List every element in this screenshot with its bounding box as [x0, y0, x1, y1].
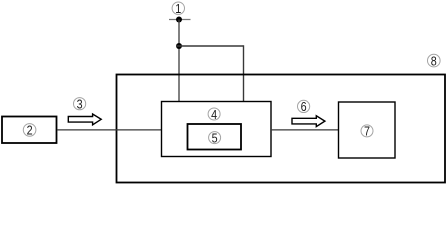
box 4	[162, 102, 272, 157]
svg-text:1: 1	[175, 1, 181, 16]
junction dot at terminal	[176, 17, 182, 23]
node 1 callout circle	[172, 1, 184, 16]
callout 7	[361, 124, 373, 139]
callout 3	[74, 97, 86, 112]
wire vertical branch down to box 4	[243, 45, 245, 101]
block arrow 6	[292, 116, 325, 127]
wire vertical from node 1 down to box 4	[178, 20, 180, 102]
callout 2	[23, 123, 36, 138]
block arrow 3	[68, 114, 101, 125]
svg-text:3: 3	[77, 97, 83, 112]
callout 5	[209, 130, 221, 145]
svg-text:5: 5	[212, 130, 218, 145]
callout 6	[298, 99, 310, 114]
wire horizontal from junction A to branch	[176, 45, 244, 47]
svg-text:6: 6	[301, 99, 307, 114]
box 2	[2, 117, 57, 144]
box 7	[339, 102, 396, 158]
svg-text:2: 2	[27, 123, 33, 138]
svg-text:4: 4	[211, 107, 217, 122]
terminal tick at node 1	[169, 19, 191, 21]
box 5	[188, 124, 242, 150]
svg-text:8: 8	[431, 53, 437, 68]
wire from box 2 to box 4	[57, 129, 161, 131]
wire from box 4 to box 7	[271, 129, 339, 131]
svg-text:7: 7	[364, 124, 370, 139]
enclosure box 8	[117, 75, 446, 183]
callout 8	[428, 53, 441, 68]
junction dot A	[176, 43, 182, 49]
callout 4	[208, 107, 220, 122]
